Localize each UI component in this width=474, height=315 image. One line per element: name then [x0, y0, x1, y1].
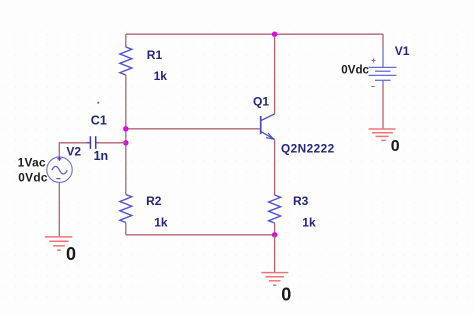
- svg-text:0: 0: [281, 284, 291, 304]
- transistor Q1: [261, 114, 275, 139]
- svg-text:Q1: Q1: [253, 94, 269, 108]
- wire C1 to node: [97, 142, 126, 144]
- node top rail junction dot: [272, 32, 277, 37]
- wire emitter (Q1 to R3): [274, 139, 276, 195]
- svg-text:0: 0: [391, 138, 400, 155]
- wire left column lower (R2 bottom to bottom rail): [125, 223, 127, 235]
- svg-text:1k: 1k: [302, 216, 316, 230]
- resistor R2: [120, 195, 132, 223]
- ground 0 under V1: [369, 129, 396, 140]
- stray grid mark: [97, 102, 99, 104]
- svg-text:R3: R3: [293, 194, 309, 208]
- svg-text:Q2N2222: Q2N2222: [281, 141, 335, 155]
- wire V2 bottom to ground: [58, 182, 60, 237]
- svg-text:R2: R2: [146, 194, 162, 208]
- source V1 battery: [369, 47, 397, 88]
- wire V1 bottom to ground: [382, 87, 384, 129]
- wire emitter node to ground: [274, 235, 276, 273]
- wire top rail: [126, 33, 383, 35]
- svg-text:0Vdc: 0Vdc: [18, 170, 48, 184]
- svg-text:0Vdc: 0Vdc: [341, 63, 369, 76]
- svg-text:V2: V2: [66, 145, 81, 159]
- node base junction dot: [123, 126, 128, 131]
- svg-text:0: 0: [66, 244, 76, 264]
- ground 0 under V2: [45, 237, 72, 250]
- resistor R1: [120, 47, 132, 75]
- svg-text:1k: 1k: [154, 69, 168, 83]
- capacitor C1: [87, 136, 100, 149]
- node emitter junction dot: [272, 232, 277, 237]
- wire collector (rail to Q1): [274, 34, 276, 114]
- svg-text:1Vac: 1Vac: [18, 155, 46, 169]
- wire V2 to C1: [59, 143, 90, 158]
- svg-text:1n: 1n: [94, 149, 109, 163]
- svg-text:V1: V1: [395, 44, 410, 58]
- source V2: [47, 157, 72, 183]
- wire left column middle (R1 bottom to R2 top): [125, 75, 127, 195]
- svg-text:1k: 1k: [154, 215, 168, 229]
- wire bottom rail: [126, 234, 275, 236]
- node capacitor junction dot: [123, 140, 128, 145]
- wire base (node to Q1 base): [126, 128, 260, 130]
- resistor R3: [269, 195, 281, 223]
- ground 0 under R3: [261, 273, 288, 286]
- wire left column upper (rail to R1): [125, 34, 127, 47]
- wire V1 drop from rail: [382, 34, 384, 46]
- svg-text:R1: R1: [147, 48, 163, 62]
- wire R3 bottom to rail: [274, 223, 276, 235]
- svg-text:C1: C1: [91, 114, 107, 128]
